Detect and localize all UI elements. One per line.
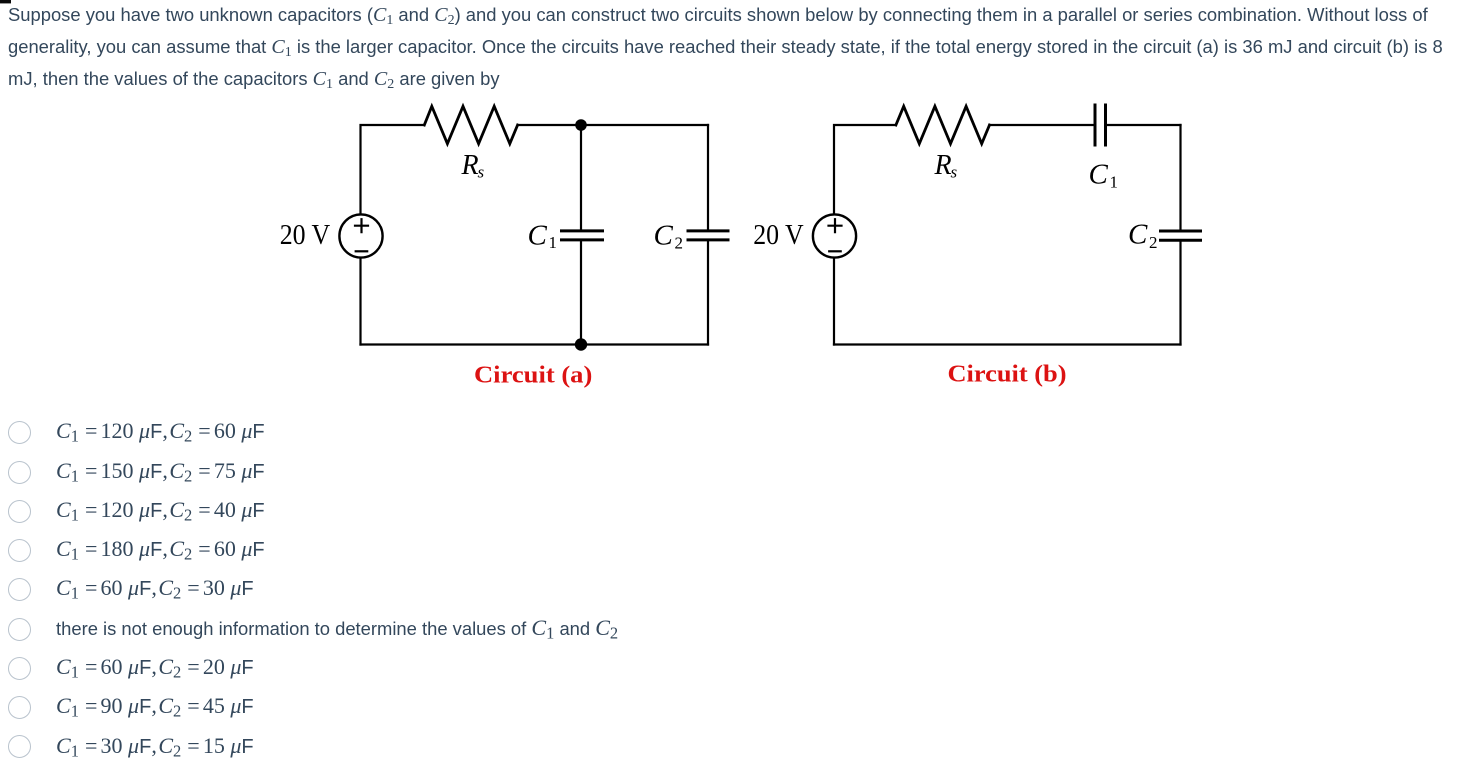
voltage source V2 (b) 20 V circle	[813, 214, 856, 257]
wire: (b) C1 right plate to top-right corner	[1107, 124, 1180, 126]
wire: (a) node A to top-right corner	[581, 124, 708, 126]
radio option 7	[0, 0, 1, 1]
svg-text:C: C	[528, 219, 548, 251]
svg-text:C: C	[1128, 219, 1148, 251]
svg-text:C: C	[1089, 159, 1109, 191]
svg-text:s: s	[478, 163, 485, 182]
wire: (b) left side below source	[833, 258, 835, 345]
radio option 3	[0, 0, 1, 1]
top-left crop mark	[0, 0, 11, 3]
wire: (b) right side upper (to C2 top plate)	[1179, 125, 1181, 229]
svg-text:2: 2	[675, 234, 684, 253]
svg-text:2: 2	[1149, 233, 1158, 252]
voltage source V1 (a) minus sign	[356, 250, 368, 252]
radio option 4	[0, 0, 1, 1]
svg-text:1: 1	[1110, 173, 1119, 192]
wire: (a) right branch upper (to C2 top plate)	[707, 125, 709, 229]
svg-text:C: C	[654, 219, 674, 251]
capacitor C2 (b) plates	[1161, 231, 1201, 240]
wire: (b) resistor to C1 left plate	[990, 124, 1094, 126]
svg-text:1: 1	[549, 233, 558, 252]
radio option 8	[0, 0, 1, 1]
voltage source V2 (b) plus sign	[829, 219, 842, 232]
wire: (b) bottom side	[834, 343, 1181, 345]
wire: (a) resistor to node A	[518, 124, 581, 126]
capacitor C1 (a) plates	[562, 231, 603, 240]
wire: (a) C1 branch lower (C1 bottom plate to node B)	[580, 242, 582, 345]
svg-text:R: R	[934, 150, 952, 181]
wire: (b) right side lower (C2 bottom plate to corner)	[1179, 242, 1181, 345]
capacitor C2 (a) plates	[688, 231, 728, 240]
wire: (a) left side below source	[359, 258, 361, 345]
radio option 6	[0, 0, 1, 1]
radio option 5	[0, 0, 1, 1]
svg-text:20 V: 20 V	[280, 220, 331, 251]
node A junction dot (a) top	[575, 119, 587, 131]
node B junction dot (a) bottom	[575, 338, 587, 350]
radio option 2	[0, 0, 1, 1]
svg-text:R: R	[461, 150, 479, 181]
wire: (a) bottom side	[361, 343, 709, 345]
svg-text:Circuit (b): Circuit (b)	[948, 361, 1067, 388]
svg-text:Circuit (a): Circuit (a)	[474, 361, 592, 388]
wire: (a) top-left corner, source top to resistor	[361, 125, 425, 214]
wire: (b) top-left corner, source top to resistor	[834, 125, 896, 214]
radio option 9	[0, 0, 1, 1]
svg-text:s: s	[951, 163, 958, 182]
voltage source V1 (a) 20 V circle	[339, 214, 382, 257]
resistor Rs (a)	[424, 106, 517, 143]
voltage source V1 (a) plus sign	[355, 219, 368, 232]
question text	[8, 2, 1443, 98]
wire: (a) C1 branch upper (node A to C1 top plate)	[580, 125, 582, 229]
voltage source V2 (b) minus sign	[829, 250, 841, 252]
radio option 1	[0, 0, 1, 1]
svg-text:20 V: 20 V	[753, 220, 804, 251]
wire: (a) right branch lower (C2 bottom plate to corner)	[707, 242, 709, 345]
resistor Rs (b)	[896, 106, 990, 143]
capacitor C1 (b) plates (series, vertical)	[1095, 105, 1106, 145]
